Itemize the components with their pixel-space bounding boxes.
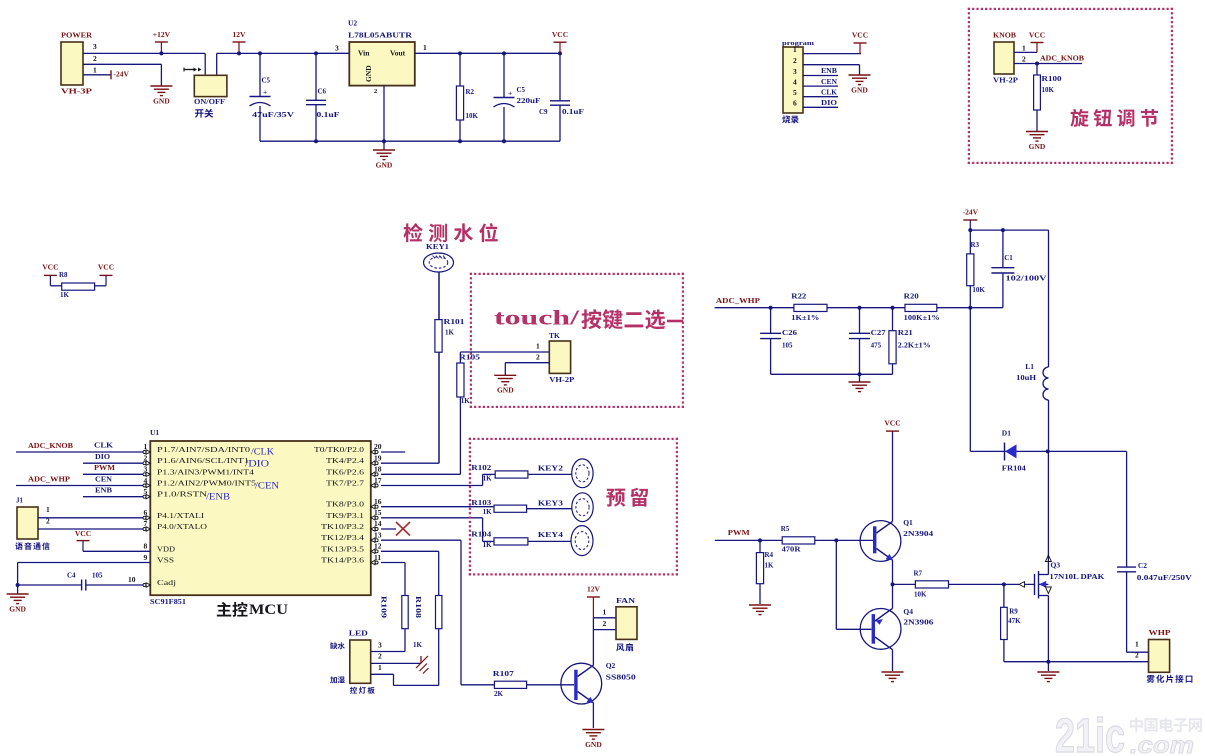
svg-text:1: 1 (378, 663, 382, 672)
svg-text:GND: GND (851, 85, 868, 94)
svg-text:10K: 10K (972, 286, 985, 294)
svg-text:CEN: CEN (95, 474, 113, 483)
svg-text:VCC: VCC (852, 30, 868, 39)
svg-text:VCC: VCC (42, 262, 58, 271)
svg-text:2: 2 (144, 453, 148, 462)
svg-text:GND: GND (585, 740, 602, 749)
svg-text:ADC_WHP: ADC_WHP (28, 474, 70, 483)
svg-text:5: 5 (793, 88, 797, 97)
svg-text:Vout: Vout (390, 48, 406, 57)
svg-text:/ENB: /ENB (206, 492, 230, 502)
svg-text:Q4: Q4 (903, 607, 913, 616)
svg-text:R100: R100 (1042, 75, 1063, 83)
svg-text:7: 7 (144, 519, 148, 528)
svg-text:20: 20 (374, 442, 382, 451)
svg-text:+: + (263, 87, 267, 96)
svg-text:FAN: FAN (616, 596, 636, 605)
svg-text:1K: 1K (483, 474, 493, 482)
svg-text:3: 3 (93, 42, 97, 51)
svg-text:-24V: -24V (963, 207, 979, 216)
svg-text:Q1: Q1 (903, 518, 913, 527)
svg-text:C5: C5 (262, 77, 271, 85)
svg-text:14: 14 (374, 519, 382, 528)
svg-text:6: 6 (793, 99, 797, 108)
svg-text:C6: C6 (318, 88, 327, 96)
svg-text:R8: R8 (59, 271, 68, 279)
svg-text:2: 2 (536, 352, 540, 361)
svg-text:POWER: POWER (61, 30, 93, 39)
svg-text:P1.7/AIN7/SDA/INT0: P1.7/AIN7/SDA/INT0 (157, 446, 251, 454)
svg-text:CLK: CLK (94, 440, 113, 449)
svg-text:R104: R104 (471, 531, 492, 539)
svg-text:ADC_KNOB: ADC_KNOB (1040, 53, 1084, 62)
svg-text:TK12/P3.4: TK12/P3.4 (321, 534, 365, 542)
svg-text:P1.6/AIN6/SCL/INT1: P1.6/AIN6/SCL/INT1 (157, 457, 250, 465)
svg-text:GND: GND (9, 604, 26, 613)
svg-text:MCU: MCU (249, 602, 289, 618)
svg-text:R107: R107 (493, 670, 515, 678)
svg-text:P4.0/XTALO: P4.0/XTALO (157, 523, 207, 531)
svg-text:0.047uF/250V: 0.047uF/250V (1137, 573, 1193, 582)
svg-text:TK14/P3.6: TK14/P3.6 (321, 557, 365, 565)
svg-text:12: 12 (374, 542, 382, 551)
svg-text:GND: GND (1029, 142, 1046, 151)
svg-text:18: 18 (374, 465, 382, 474)
svg-text:2: 2 (793, 56, 797, 65)
svg-text:U1: U1 (150, 428, 159, 437)
svg-text:VCC: VCC (884, 419, 900, 428)
svg-text:TK6/P2.6: TK6/P2.6 (326, 468, 365, 476)
svg-text:SC91F851: SC91F851 (150, 598, 187, 606)
svg-text:C2: C2 (1138, 561, 1147, 570)
svg-text:VH-2P: VH-2P (993, 75, 1018, 84)
svg-text:FR104: FR104 (1002, 463, 1026, 472)
svg-text:KEY2: KEY2 (538, 463, 563, 472)
svg-text:VDD: VDD (157, 545, 175, 553)
svg-text:2: 2 (1022, 54, 1026, 63)
svg-text:C1: C1 (1004, 254, 1013, 262)
svg-text:3: 3 (335, 43, 339, 52)
svg-text:105: 105 (782, 342, 793, 350)
svg-text:Cadj: Cadj (157, 579, 176, 587)
svg-text:10K: 10K (1042, 86, 1055, 94)
svg-text:GND: GND (376, 160, 393, 169)
svg-text:+12V: +12V (153, 30, 171, 39)
svg-text:P4.1/XTALI: P4.1/XTALI (157, 512, 205, 520)
svg-text:R3: R3 (971, 241, 980, 249)
svg-text:100K±1%: 100K±1% (904, 314, 940, 322)
svg-text:C9: C9 (539, 108, 548, 116)
svg-text:4: 4 (144, 476, 148, 485)
svg-text:TK10/P3.2: TK10/P3.2 (321, 523, 365, 531)
svg-text:2: 2 (374, 88, 377, 95)
svg-text:1: 1 (536, 341, 540, 350)
svg-text:VCC: VCC (98, 262, 114, 271)
svg-text:8: 8 (144, 542, 148, 551)
svg-text:Q3: Q3 (1051, 560, 1061, 569)
svg-text:R101: R101 (444, 318, 466, 326)
svg-text:R22: R22 (791, 293, 807, 301)
svg-text:R4: R4 (765, 551, 774, 559)
svg-text:ENB: ENB (95, 485, 112, 494)
svg-text:WHP: WHP (1149, 628, 1172, 637)
svg-text:-24V: -24V (114, 69, 130, 78)
svg-text:12V: 12V (233, 30, 247, 39)
svg-text:1K±1%: 1K±1% (791, 314, 819, 322)
svg-text:1K: 1K (765, 562, 775, 570)
svg-text:1: 1 (1135, 640, 1139, 649)
svg-text:TK7/P2.7: TK7/P2.7 (326, 480, 365, 488)
svg-text:10K: 10K (466, 112, 479, 120)
svg-text:D1: D1 (1002, 428, 1011, 437)
svg-text:475: 475 (871, 342, 882, 350)
svg-text:1: 1 (93, 65, 97, 74)
svg-text:6: 6 (144, 508, 148, 517)
svg-text:0.1uF: 0.1uF (317, 111, 340, 119)
svg-text:21ic: 21ic (1055, 710, 1125, 756)
svg-text:.com: .com (1130, 732, 1194, 756)
svg-text:VH-3P: VH-3P (61, 86, 93, 95)
svg-text:DIO: DIO (821, 99, 838, 107)
svg-text:GND: GND (364, 65, 373, 82)
svg-text:13: 13 (374, 531, 382, 540)
svg-text:KNOB: KNOB (993, 30, 1016, 39)
svg-text:102/100V: 102/100V (1006, 274, 1047, 282)
svg-text:1: 1 (423, 43, 427, 52)
svg-text:ON/OFF: ON/OFF (194, 98, 225, 106)
svg-text:touch/: touch/ (494, 305, 581, 329)
svg-text:17: 17 (374, 476, 382, 485)
svg-text:R109: R109 (380, 596, 388, 619)
svg-text:1K: 1K (461, 397, 471, 405)
svg-text:12V: 12V (587, 584, 601, 593)
svg-text:9: 9 (144, 553, 148, 562)
svg-text:VH-2P: VH-2P (549, 375, 574, 384)
svg-text:1K: 1K (413, 641, 423, 649)
svg-text:1K: 1K (483, 541, 493, 549)
svg-text:CEN: CEN (821, 78, 837, 86)
svg-text:R7: R7 (914, 569, 923, 577)
svg-text:TK9/P3.1: TK9/P3.1 (326, 512, 365, 520)
svg-text:470R: 470R (782, 546, 802, 554)
svg-text:10K: 10K (914, 591, 927, 599)
svg-text:2.2K±1%: 2.2K±1% (898, 342, 931, 350)
svg-text:3: 3 (793, 67, 797, 76)
svg-text:1: 1 (144, 442, 148, 451)
svg-text:47uF/35V: 47uF/35V (252, 111, 294, 119)
svg-text:R103: R103 (471, 499, 492, 507)
svg-text:1: 1 (603, 608, 607, 617)
svg-text:2: 2 (93, 54, 97, 63)
svg-text:2: 2 (603, 619, 607, 628)
svg-text:TK8/P3.0: TK8/P3.0 (326, 501, 365, 509)
svg-text:15: 15 (374, 508, 382, 517)
svg-text:47K: 47K (1008, 617, 1021, 625)
svg-text:P1.2/AIN2/PWM0/INT5: P1.2/AIN2/PWM0/INT5 (157, 480, 257, 488)
svg-text:TK13/P3.5: TK13/P3.5 (321, 545, 365, 553)
svg-text:L1: L1 (1025, 362, 1034, 371)
svg-text:2: 2 (378, 652, 382, 661)
svg-text:J1: J1 (16, 497, 24, 505)
svg-text:TK: TK (549, 331, 560, 340)
svg-text:5: 5 (144, 487, 148, 496)
svg-text:R108: R108 (414, 596, 422, 619)
svg-text:PWM: PWM (94, 463, 115, 472)
svg-text:C5: C5 (517, 86, 526, 94)
svg-text:2N3906: 2N3906 (903, 618, 933, 627)
svg-text:/CLK: /CLK (251, 447, 275, 457)
svg-text:R102: R102 (471, 464, 492, 472)
svg-text:3: 3 (378, 640, 382, 649)
svg-text:SS8050: SS8050 (606, 673, 636, 682)
svg-text:1: 1 (1022, 43, 1026, 52)
svg-text:1K: 1K (60, 291, 70, 299)
svg-text:16: 16 (374, 497, 382, 506)
svg-text:11: 11 (374, 553, 381, 562)
svg-text:105: 105 (92, 572, 103, 580)
svg-text:2N3904: 2N3904 (903, 529, 933, 538)
svg-text:R9: R9 (1009, 608, 1018, 616)
svg-text:Vin: Vin (358, 48, 370, 57)
svg-text:L78L05ABUTR: L78L05ABUTR (348, 30, 413, 39)
svg-text:ADC_KNOB: ADC_KNOB (28, 441, 73, 450)
svg-text:1: 1 (793, 45, 797, 54)
svg-text:P1.0/RSTN: P1.0/RSTN (157, 491, 208, 499)
svg-text:+: + (508, 88, 512, 97)
svg-text:DIO: DIO (95, 452, 110, 461)
svg-text:VCC: VCC (1029, 30, 1045, 39)
svg-text:VCC: VCC (552, 30, 568, 39)
svg-text:2K: 2K (494, 690, 504, 698)
svg-text:17N10L DPAK: 17N10L DPAK (1049, 572, 1104, 581)
svg-text:GND: GND (153, 96, 170, 105)
svg-text:U2: U2 (348, 18, 357, 27)
svg-text:/CEN: /CEN (255, 481, 280, 491)
svg-text:10: 10 (128, 575, 136, 584)
svg-text:C26: C26 (782, 329, 798, 337)
svg-text:1K: 1K (445, 329, 455, 337)
svg-text:10uH: 10uH (1016, 373, 1036, 382)
svg-text:ADC_WHP: ADC_WHP (716, 296, 760, 305)
svg-text:1: 1 (46, 505, 50, 514)
svg-text:VCC: VCC (75, 529, 91, 538)
svg-text:C27: C27 (871, 329, 887, 337)
svg-text:KEY3: KEY3 (538, 498, 563, 507)
svg-text:LED: LED (349, 629, 369, 638)
svg-text:R21: R21 (898, 329, 914, 337)
svg-text:/DIO: /DIO (245, 459, 270, 469)
svg-text:R5: R5 (781, 525, 790, 533)
svg-text:CLK: CLK (821, 88, 838, 96)
svg-text:3: 3 (144, 465, 148, 474)
svg-text:4: 4 (793, 77, 797, 86)
svg-text:TK4/P2.4: TK4/P2.4 (326, 457, 365, 465)
svg-text:220uF: 220uF (517, 97, 541, 105)
svg-text:ENB: ENB (821, 67, 837, 75)
svg-text:GND: GND (497, 386, 514, 395)
svg-text:0.1uF: 0.1uF (562, 108, 584, 116)
svg-text:T0/TK0/P2.0: T0/TK0/P2.0 (314, 446, 365, 454)
svg-text:19: 19 (374, 453, 382, 462)
svg-text:R2: R2 (466, 88, 475, 96)
svg-text:R20: R20 (904, 293, 920, 301)
svg-text:VSS: VSS (157, 557, 174, 565)
svg-text:C4: C4 (67, 572, 76, 580)
svg-text:program: program (782, 40, 815, 47)
svg-text:Q2: Q2 (606, 661, 616, 670)
svg-text:KEY4: KEY4 (538, 530, 563, 539)
svg-text:KEY1: KEY1 (426, 243, 450, 251)
svg-text:1K: 1K (483, 508, 493, 516)
svg-text:PWM: PWM (728, 528, 750, 537)
svg-text:P1.3/AIN3/PWM1/INT4: P1.3/AIN3/PWM1/INT4 (157, 468, 255, 476)
